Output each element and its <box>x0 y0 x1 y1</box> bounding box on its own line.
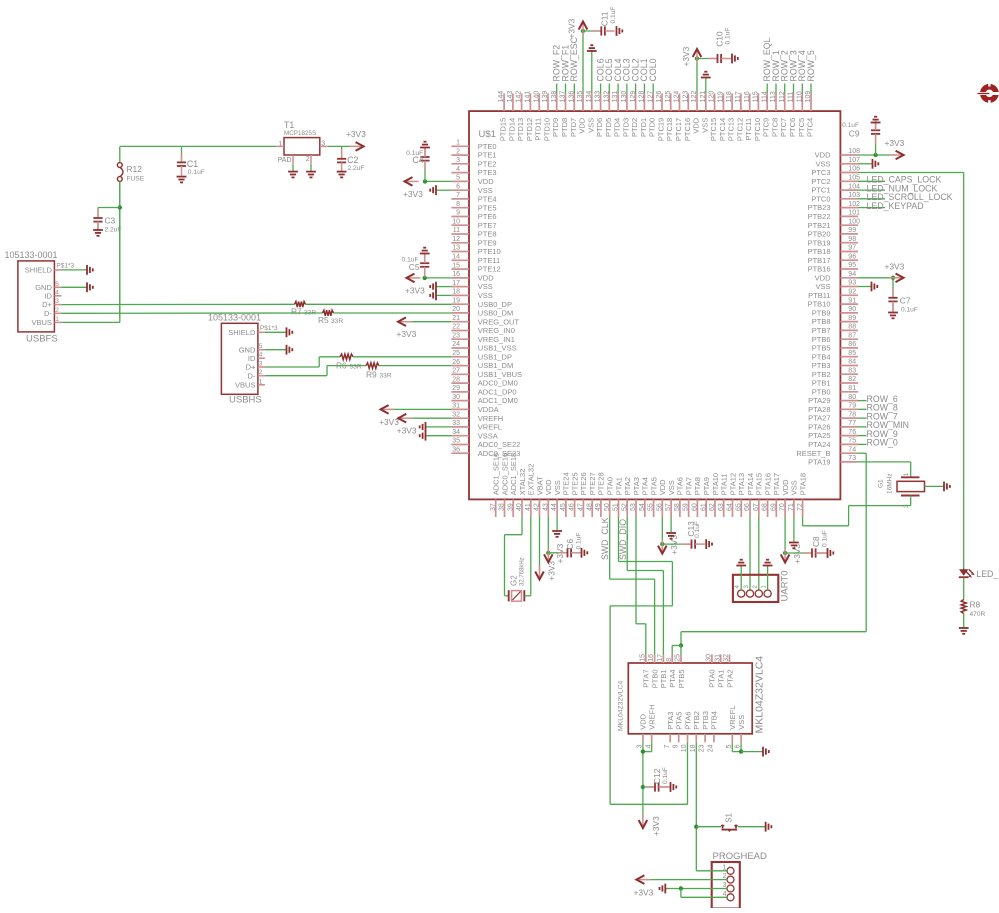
svg-text:2: 2 <box>456 148 460 155</box>
U$1 pin 89 PTB8 <box>840 321 858 323</box>
wire USBFS D+ to R7 <box>61 303 294 305</box>
capacitor C11 0.1uF <box>583 30 601 32</box>
U$1 pin 140 PTD11 <box>538 93 540 111</box>
svg-text:4: 4 <box>456 166 460 173</box>
U$1 pin 141 PTD12 <box>529 93 531 111</box>
svg-text:PTC16: PTC16 <box>683 118 692 141</box>
svg-text:7: 7 <box>664 744 671 748</box>
svg-text:34: 34 <box>452 429 460 436</box>
svg-text:USBHS: USBHS <box>229 394 262 405</box>
svg-text:C10: C10 <box>715 31 725 47</box>
svg-text:SHIELD: SHIELD <box>25 266 53 275</box>
wire G1 pin3 to U$1 PTA18 <box>910 496 912 506</box>
svg-text:PTD6: PTD6 <box>595 118 604 137</box>
U$1 pin 65 PTA13 <box>740 499 742 517</box>
svg-text:63: 63 <box>718 503 725 511</box>
U$1 pin 133 PTD6 <box>600 93 602 111</box>
svg-text:PTA6: PTA6 <box>683 712 692 730</box>
wire U$1 VSS pin6 <box>436 189 451 191</box>
svg-text:52: 52 <box>621 503 628 511</box>
wire net ROW_MIN pin77 <box>858 426 867 428</box>
U$1 pin 52 PTA2 <box>626 499 628 517</box>
svg-text:VDD: VDD <box>639 713 648 729</box>
svg-text:22: 22 <box>452 324 460 331</box>
USBFS GND wire <box>61 286 87 288</box>
svg-text:VDD: VDD <box>544 479 553 495</box>
svg-text:77: 77 <box>848 420 856 427</box>
svg-text:D-: D- <box>44 309 52 318</box>
svg-text:VSS: VSS <box>737 715 746 730</box>
MKL04 pin 6 VSS <box>740 734 742 743</box>
node MKL04 vss junction <box>739 749 743 753</box>
svg-text:PTB2: PTB2 <box>692 711 701 730</box>
svg-text:2: 2 <box>55 307 59 314</box>
U$1 pin 22 VREG_IN0 <box>451 330 469 332</box>
svg-text:PTA2: PTA2 <box>725 670 734 688</box>
svg-text:18: 18 <box>452 289 460 296</box>
svg-text:PTA13: PTA13 <box>737 473 746 495</box>
wire U$1 VDD pin43 <box>547 517 549 553</box>
svg-text:3: 3 <box>456 157 460 164</box>
svg-text:R9: R9 <box>366 370 377 380</box>
svg-text:82: 82 <box>848 376 856 383</box>
svg-text:D+: D+ <box>42 300 52 309</box>
svg-text:50: 50 <box>604 503 611 511</box>
ground UART0 pin1 <box>763 565 773 567</box>
wire U$1 PTA1 pin51 to MKL04 PTA6 <box>618 517 620 562</box>
resistor R5 33R <box>323 310 334 316</box>
U$1 pin 127 PTD0 <box>652 93 654 111</box>
U$1 pin 30 ADC1_DM0 <box>451 400 469 402</box>
svg-text:35: 35 <box>452 438 460 445</box>
wire net COL3 pin130 <box>626 84 628 94</box>
U$1 pin 29 ADC1_DP0 <box>451 391 469 393</box>
svg-text:117: 117 <box>735 91 742 102</box>
U$1 pin 53 PTA3 <box>635 499 637 517</box>
svg-text:PTA17: PTA17 <box>772 473 781 495</box>
svg-text:10: 10 <box>681 744 688 752</box>
capacitor C4 0.1uF <box>424 162 426 182</box>
wire R9 to U$1 USB1_DM <box>379 365 451 367</box>
wire net ROW_8 pin79 <box>858 408 867 410</box>
svg-text:91: 91 <box>848 297 856 304</box>
svg-text:VBUS: VBUS <box>31 318 51 327</box>
svg-text:6: 6 <box>456 183 460 190</box>
svg-text:33R: 33R <box>331 318 343 325</box>
svg-text:30: 30 <box>452 394 460 401</box>
ground USBHS gnd <box>286 345 288 355</box>
svg-text:72: 72 <box>797 503 804 511</box>
svg-text:PTC7: PTC7 <box>779 118 788 137</box>
svg-text:PTC8: PTC8 <box>771 118 780 137</box>
U$1 pin 35 ADC0_SE22 <box>451 444 469 446</box>
wire U$1 pin34 to ground <box>426 435 452 437</box>
svg-text:48: 48 <box>586 503 593 511</box>
svg-text:VSS: VSS <box>553 480 562 495</box>
node C8 junction <box>783 551 787 555</box>
ground C2 <box>337 171 347 173</box>
svg-text:RESET_B: RESET_B <box>796 449 830 458</box>
wire U$1 XTAL32 pin40 to crystal G2 <box>521 517 523 535</box>
USBHS GND wire <box>265 349 287 351</box>
svg-text:86: 86 <box>848 341 856 348</box>
svg-text:VREFL: VREFL <box>478 423 502 432</box>
U$1 pin 41 EXTAL32 <box>530 499 532 517</box>
USBHS SHIELD net P$1*3 wire <box>265 331 287 333</box>
svg-text:PTB5: PTB5 <box>677 670 686 689</box>
svg-text:PTA27: PTA27 <box>808 414 830 423</box>
ground C9 top <box>871 122 881 124</box>
svg-text:PTB9: PTB9 <box>812 309 831 318</box>
supply +3V3 arrow pin56 <box>661 540 663 554</box>
svg-text:53: 53 <box>630 503 637 511</box>
svg-text:PTB10: PTB10 <box>808 300 831 309</box>
U$1 pin 2 PTE1 <box>451 154 469 156</box>
capacitor C8 0.1uF <box>785 552 812 554</box>
svg-text:PTA19: PTA19 <box>808 458 830 467</box>
svg-text:PTB20: PTB20 <box>808 230 831 239</box>
U$1 pin 61 PTA9 <box>705 499 707 517</box>
svg-text:VSS: VSS <box>667 480 676 495</box>
supply +3V3 arrow pin21 <box>398 321 412 323</box>
svg-text:PTB23: PTB23 <box>808 203 831 212</box>
U$1 pin 97 PTB18 <box>840 251 858 253</box>
svg-text:9: 9 <box>672 744 679 748</box>
U$1 pin 105 PTC2 <box>840 180 858 182</box>
U$1 pin 38 ADC0_SE16 <box>504 499 506 517</box>
wire U$1 VSS pin57 <box>670 517 672 532</box>
ground C7 <box>888 312 898 314</box>
svg-text:61: 61 <box>700 503 707 511</box>
svg-text:141: 141 <box>525 91 532 103</box>
svg-text:USB1_VSS: USB1_VSS <box>478 344 517 353</box>
USBHS pin 1 VBUS <box>258 384 265 386</box>
wire U$1 VSS pin121 <box>705 78 707 94</box>
svg-text:ADC0_DM0: ADC0_DM0 <box>478 379 518 388</box>
svg-text:64: 64 <box>727 503 734 511</box>
ground R8 <box>959 627 969 629</box>
USBHS pin 5 GND <box>258 349 265 351</box>
svg-text:42: 42 <box>534 503 541 511</box>
capacitor C13 0.1uF <box>662 543 691 545</box>
svg-text:VREFL: VREFL <box>728 706 737 730</box>
svg-text:PTA26: PTA26 <box>808 423 830 432</box>
svg-text:65: 65 <box>735 503 742 511</box>
wire S1 to ground <box>738 826 766 828</box>
svg-text:VSS: VSS <box>478 186 493 195</box>
svg-text:PTC19: PTC19 <box>657 118 666 141</box>
svg-text:33: 33 <box>452 420 460 427</box>
U$1 pin 131 PTD4 <box>617 93 619 111</box>
ground USBFS shield <box>86 265 88 275</box>
USBHS pin P$1 SHIELD <box>258 331 265 333</box>
U$1 pin 15 PTE12 <box>451 268 469 270</box>
svg-text:PTA15: PTA15 <box>755 473 764 495</box>
U$1 pin 117 PTC12 <box>740 93 742 111</box>
U$1 pin 130 PTD3 <box>626 93 628 111</box>
node VBUS junction with C3 <box>118 205 122 209</box>
U$1 pin 129 PTD2 <box>635 93 637 111</box>
svg-text:PTD12: PTD12 <box>525 118 534 141</box>
svg-text:PROGHEAD: PROGHEAD <box>713 851 768 862</box>
ground T1 PAD <box>288 171 298 173</box>
capacitor C10 0.1uF <box>697 58 718 60</box>
U$1 pin 122 VDD <box>696 93 698 111</box>
node C11 junction <box>581 29 585 33</box>
U$1 pin 104 PTC1 <box>840 189 858 191</box>
svg-text:10: 10 <box>452 218 460 225</box>
U$1 pin 143 PTD14 <box>512 93 514 111</box>
USBFS pin 1 VBUS <box>54 321 61 323</box>
svg-text:67: 67 <box>753 503 760 511</box>
svg-text:5: 5 <box>259 343 263 350</box>
U$1 pin 85 PTB4 <box>840 356 858 358</box>
svg-text:PTB0: PTB0 <box>650 670 659 689</box>
wire net ROW_EQL pin114 <box>766 84 768 94</box>
U$1 pin 32 VREFH <box>451 417 469 419</box>
U$1 pin 142 PTD13 <box>521 93 523 111</box>
capacitor C9 0.1uF <box>875 135 877 155</box>
svg-text:PTA11: PTA11 <box>720 473 729 495</box>
resistor R8 470R <box>961 600 966 614</box>
svg-text:+3V3: +3V3 <box>403 189 423 199</box>
svg-text:142: 142 <box>516 91 523 103</box>
U$1 pin 49 PTE28 <box>600 499 602 517</box>
svg-text:ID: ID <box>44 291 52 300</box>
supply +3V3 arrow pin70 <box>784 549 786 563</box>
capacitor C12 0.1uF <box>643 786 655 788</box>
PROGHEAD pin 3 <box>727 885 734 892</box>
svg-text:5: 5 <box>55 281 59 288</box>
svg-text:PTC17: PTC17 <box>674 118 683 141</box>
U$1 pin 91 PTB10 <box>840 303 858 305</box>
UART0 pin 4 <box>738 590 745 597</box>
svg-text:XTAL32: XTAL32 <box>518 469 527 496</box>
U$1 pin 111 PTC6 <box>793 93 795 111</box>
svg-text:PTA10: PTA10 <box>711 473 720 495</box>
svg-text:88: 88 <box>848 324 856 331</box>
svg-text:PTA25: PTA25 <box>808 431 830 440</box>
svg-text:PTA12: PTA12 <box>728 473 737 495</box>
U$1 pin 31 VDDA <box>451 408 469 410</box>
svg-text:115: 115 <box>753 91 760 102</box>
svg-text:12: 12 <box>452 236 460 243</box>
svg-text:PTA4: PTA4 <box>668 670 677 688</box>
regulator T1 MCP1825S <box>284 138 320 155</box>
U$1 pin 112 PTC7 <box>784 93 786 111</box>
U$1 pin 88 PTB7 <box>840 329 858 331</box>
U$1 pin 123 PTC16 <box>687 93 689 111</box>
MKL04 pin 18 PTB2 <box>695 734 697 743</box>
switch S1 <box>696 826 721 828</box>
svg-text:PTC15: PTC15 <box>709 118 718 141</box>
svg-text:PTE28: PTE28 <box>597 472 606 495</box>
svg-text:C6: C6 <box>565 538 575 549</box>
svg-text:93: 93 <box>848 280 856 287</box>
svg-text:123: 123 <box>682 91 689 103</box>
svg-text:VDD: VDD <box>658 479 667 495</box>
svg-text:PTE6: PTE6 <box>478 212 497 221</box>
U$1 pin 39 ADC1_SE18 <box>512 499 514 517</box>
svg-text:PTC5: PTC5 <box>797 118 806 137</box>
wire net COL5 pin132 <box>608 84 610 94</box>
svg-text:13: 13 <box>452 245 460 252</box>
wire fuse to junction <box>119 181 121 316</box>
svg-text:8: 8 <box>666 658 673 662</box>
wire U$1 VREFH pin32 <box>407 417 451 419</box>
svg-text:PTC3: PTC3 <box>811 168 830 177</box>
svg-text:23: 23 <box>699 744 706 752</box>
svg-text:PTA0: PTA0 <box>606 477 615 495</box>
svg-text:PTE8: PTE8 <box>478 230 497 239</box>
svg-text:2.2uF: 2.2uF <box>348 165 365 172</box>
MKL04 pin 15 PTA7 <box>645 655 647 664</box>
svg-text:+3V3: +3V3 <box>681 46 691 66</box>
svg-text:USB1_VBUS: USB1_VBUS <box>478 370 522 379</box>
U$1 pin 132 PTD5 <box>608 93 610 111</box>
svg-text:PTA24: PTA24 <box>808 440 830 449</box>
svg-text:96: 96 <box>848 253 856 260</box>
wire U$1 VDDA pin31 <box>389 408 451 410</box>
U$1 pin 83 PTB2 <box>840 373 858 375</box>
U$1 pin 46 PTE25 <box>574 499 576 517</box>
node C12 junction <box>641 785 645 789</box>
MKL04 pin 16 PTB0 <box>654 655 656 664</box>
connector USBHS 105133-0001 <box>221 323 258 394</box>
PROGHEAD pin 4 <box>727 894 734 901</box>
svg-text:15: 15 <box>639 654 646 662</box>
U$1 pin 71 VSS <box>793 499 795 517</box>
wire net ROW_0 pin75 <box>858 443 867 445</box>
wire net RESET_B pin74 <box>858 452 866 454</box>
supply +3V3 arrow pin42 <box>539 566 541 580</box>
svg-text:PTA28: PTA28 <box>808 405 830 414</box>
wire MKL04 PTB2 to S1 and PROGHEAD <box>695 742 697 871</box>
svg-text:+3V3: +3V3 <box>566 18 576 38</box>
capacitor C6 0.1uF <box>548 552 567 554</box>
U$1 pin 136 PTD7 <box>573 93 575 111</box>
connector UART0 <box>733 575 778 602</box>
U$1 pin 44 VSS <box>556 499 558 517</box>
U$1 pin 109 PTC4 <box>810 93 812 111</box>
U$1 pin 75 PTA24 <box>840 443 858 445</box>
svg-text:32: 32 <box>452 411 460 418</box>
U$1 pin 135 VDD <box>582 93 584 111</box>
svg-text:79: 79 <box>848 403 856 410</box>
svg-text:49: 49 <box>595 503 602 511</box>
svg-text:PTB6: PTB6 <box>812 335 831 344</box>
ground pin33 <box>425 422 427 432</box>
U$1 pin 67 PTA15 <box>758 499 760 517</box>
U$1 pin 27 USB1_VBUS <box>451 373 469 375</box>
svg-text:PTB19: PTB19 <box>808 238 831 247</box>
MKL04 pin 8 PTA4 <box>671 655 673 664</box>
crystal G2 32.768kHz <box>508 590 510 601</box>
node C9 junction <box>873 153 877 157</box>
wire U$1 PTA19 pin73 to crystal G1 <box>858 461 911 463</box>
U$1 pin 72 PTA18 <box>802 499 804 517</box>
svg-text:PTB16: PTB16 <box>808 265 831 274</box>
svg-text:VDD: VDD <box>781 479 790 495</box>
svg-text:14: 14 <box>452 254 460 261</box>
svg-text:PTE12: PTE12 <box>478 265 501 274</box>
U$1 pin 13 PTE10 <box>451 251 469 253</box>
svg-text:89: 89 <box>848 315 856 322</box>
U$1 pin 84 PTB3 <box>840 365 858 367</box>
svg-text:ADC1_SE18: ADC1_SE18 <box>509 453 518 496</box>
svg-text:VDD: VDD <box>578 117 587 133</box>
op-amp U2 MKL04Z32VLC4 body <box>628 663 752 734</box>
svg-text:VDD: VDD <box>815 151 831 160</box>
U$1 pin 19 USB0_DP <box>451 303 469 305</box>
svg-text:32.768kHz: 32.768kHz <box>520 557 526 586</box>
U$1 pin 3 PTE2 <box>451 163 469 165</box>
svg-text:0.1uF: 0.1uF <box>901 307 918 314</box>
U$1 pin 59 PTA7 <box>688 499 690 517</box>
svg-text:32: 32 <box>723 654 730 662</box>
wire net ROW_5 pin109 <box>810 84 812 94</box>
svg-text:19: 19 <box>452 297 460 304</box>
svg-text:PTB4: PTB4 <box>710 711 719 730</box>
svg-text:68: 68 <box>762 503 769 511</box>
svg-text:MCP1825S: MCP1825S <box>284 130 316 137</box>
U$1 pin 121 VSS <box>705 93 707 111</box>
svg-text:PTE27: PTE27 <box>588 472 597 495</box>
capacitor C3 2.2uF <box>97 209 99 219</box>
ground C10 <box>731 54 733 64</box>
svg-text:9: 9 <box>456 210 460 217</box>
wire T1 PAD to ground <box>292 155 294 164</box>
U$1 pin 101 PTB22 <box>840 215 858 217</box>
wire net LED_KEYPAD pin102 <box>858 207 885 209</box>
svg-text:0.1uF: 0.1uF <box>402 256 419 263</box>
svg-text:118: 118 <box>726 91 733 102</box>
svg-text:VSS: VSS <box>815 282 830 291</box>
svg-text:G1: G1 <box>878 479 885 488</box>
resistor R7 33R <box>295 302 306 308</box>
svg-text:PTE25: PTE25 <box>570 472 579 495</box>
svg-text:PTA7: PTA7 <box>684 477 693 495</box>
U$1 pin 119 PTC14 <box>722 93 724 111</box>
svg-text:PTA5: PTA5 <box>675 712 684 730</box>
supply +3V3 arrow pin31 <box>381 408 395 410</box>
svg-text:VDDA: VDDA <box>478 405 499 414</box>
svg-text:84: 84 <box>848 359 856 366</box>
ground C13 <box>705 539 707 549</box>
ground pin44 <box>552 530 562 532</box>
svg-text:PTE10: PTE10 <box>478 247 501 256</box>
svg-text:74: 74 <box>848 446 856 453</box>
U$1 pin 82 PTB1 <box>840 382 858 384</box>
svg-text:PTD1: PTD1 <box>639 118 648 137</box>
wire +3V3 rail from fuse to T1 <box>120 145 276 147</box>
svg-text:USB1_DP: USB1_DP <box>478 352 512 361</box>
svg-text:126: 126 <box>656 91 663 103</box>
U$1 pin 34 VSSA <box>451 435 469 437</box>
svg-text:USB0_DP: USB0_DP <box>478 300 512 309</box>
U$1 pin 42 VBAT <box>539 499 541 517</box>
svg-text:D-: D- <box>247 371 255 380</box>
svg-text:PTD13: PTD13 <box>516 118 525 141</box>
wire R8 to ground <box>963 614 965 629</box>
svg-text:D+: D+ <box>246 363 256 372</box>
U$1 pin 26 USB1_DM <box>451 365 469 367</box>
U$1 pin 118 PTC13 <box>731 93 733 111</box>
U$1 pin 63 PTA11 <box>723 499 725 517</box>
MKL04 pin 10 PTA6 <box>687 734 689 743</box>
U$1 pin 76 PTA25 <box>840 435 858 437</box>
LED LED_K indicator <box>959 569 968 576</box>
